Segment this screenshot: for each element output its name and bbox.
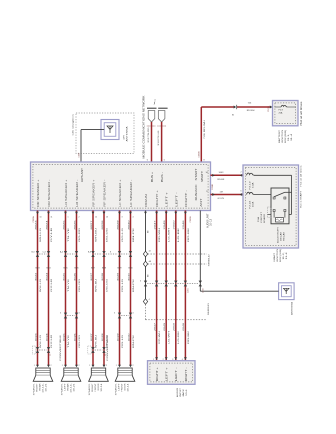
- svg-text:RR SPEAKER -: RR SPEAKER -: [48, 179, 51, 207]
- module communications network label: [143, 95, 146, 158]
- svg-text:WH-BU: WH-BU: [95, 278, 97, 292]
- wire 2050 LG-BK audio input jack LEFT -: [174, 211, 181, 361]
- svg-text:11-4: 11-4: [286, 251, 288, 259]
- svg-text:GY-YE: GY-YE: [218, 198, 225, 200]
- svg-text:2048: 2048: [183, 322, 185, 331]
- svg-text:RIGHT +: RIGHT +: [156, 366, 159, 381]
- svg-text:1: 1: [89, 365, 90, 367]
- SJB caption: [273, 249, 288, 262]
- svg-text:12: 12: [95, 216, 97, 218]
- svg-text:RF SPEAKER -: RF SPEAKER -: [104, 179, 107, 207]
- svg-text:VBATT: VBATT: [201, 170, 204, 182]
- svg-text:SHIELD: SHIELD: [209, 253, 211, 266]
- svg-text:20A: 20A: [279, 111, 283, 114]
- svg-text:2050: 2050: [174, 322, 176, 331]
- svg-text:LF SPEAKER -: LF SPEAKER -: [130, 179, 133, 207]
- svg-text:11-4: 11-4: [291, 133, 293, 141]
- fuse F2.9 20A (BJB): [279, 105, 288, 114]
- svg-text:8029: 8029: [117, 268, 121, 270]
- svg-text:C290B: C290B: [212, 183, 214, 190]
- svg-text:8030: 8030: [128, 272, 130, 281]
- svg-text:BUS -: BUS -: [161, 172, 164, 182]
- svg-text:8023: 8023: [35, 272, 37, 281]
- svg-text:8026: 8026: [74, 268, 78, 270]
- svg-text:xxxxxxx: xxxxxxx: [157, 126, 166, 128]
- svg-text:RF SPEAKER +: RF SPEAKER +: [93, 179, 96, 207]
- audio unit connector designator C290B: [190, 216, 192, 223]
- svg-text:8: 8: [110, 251, 111, 253]
- svg-text:BN-PK: BN-PK: [133, 278, 135, 292]
- svg-text:OG-LG: OG-LG: [122, 334, 124, 348]
- svg-text:REAR: REAR: [66, 383, 69, 391]
- svg-text:4A: 4A: [149, 260, 152, 263]
- svg-text:1003: 1003: [219, 172, 225, 174]
- svg-text:8027: 8027: [91, 272, 93, 281]
- svg-text:2: 2: [133, 365, 134, 367]
- svg-text:1: 1: [153, 359, 154, 361]
- svg-text:DG-OG: DG-OG: [106, 227, 108, 242]
- svg-text:RD-WH: RD-WH: [159, 330, 161, 344]
- svg-text:8028: 8028: [102, 268, 106, 270]
- svg-text:LEFT +: LEFT +: [166, 366, 169, 381]
- svg-text:2: 2: [163, 359, 164, 361]
- svg-text:RIGHT: RIGHT: [92, 383, 94, 392]
- svg-text:8025: 8025: [63, 268, 67, 270]
- BJB internal wire: [275, 106, 297, 108]
- svg-text:FRONT: FRONT: [121, 383, 123, 392]
- svg-text:8023: 8023: [35, 268, 39, 270]
- svg-text:BOX (BJB): BOX (BJB): [285, 130, 287, 143]
- svg-text:ANTENNA: ANTENNA: [126, 126, 129, 142]
- svg-text:Hot in START: Hot in START: [300, 190, 303, 208]
- svg-text:LR SPEAKER +: LR SPEAKER +: [65, 179, 68, 207]
- svg-text:LF SPEAKER +: LF SPEAKER +: [119, 179, 122, 207]
- svg-text:DOOR: DOOR: [124, 383, 126, 391]
- svg-text:5: 5: [164, 160, 166, 162]
- svg-text:34: 34: [206, 172, 208, 174]
- svg-text:2050: 2050: [174, 219, 176, 230]
- svg-text:4: 4: [154, 100, 156, 102]
- svg-text:2: 2: [79, 216, 80, 218]
- wire MCN bus - (to audio unit pin 5): [157, 122, 166, 165]
- svg-text:137: 137: [220, 191, 224, 193]
- svg-text:4: 4: [182, 359, 183, 361]
- svg-text:TN-YE: TN-YE: [68, 227, 70, 242]
- svg-text:OG-LG: OG-LG: [122, 278, 124, 292]
- svg-text:LG-WH: LG-WH: [169, 227, 171, 242]
- svg-text:6: 6: [140, 281, 141, 283]
- svg-text:REAR: REAR: [38, 383, 41, 391]
- svg-text:ACCESSORY: ACCESSORY: [276, 226, 279, 243]
- svg-text:C3: C3: [50, 354, 52, 356]
- MCN connector cup 2: [158, 111, 165, 122]
- svg-text:LR SPEAKER -: LR SPEAKER -: [76, 179, 79, 207]
- wire GPS antenna coax to audio unit: [78, 130, 104, 165]
- inline connector row C210 on jack wires: [140, 281, 202, 294]
- svg-text:LEFT: LEFT: [64, 383, 66, 391]
- svg-text:GPS ANT: GPS ANT: [81, 167, 84, 182]
- svg-text:10-14: 10-14: [127, 382, 129, 391]
- svg-text:SPEAKER,: SPEAKER,: [32, 383, 35, 395]
- svg-text:8027: 8027: [91, 219, 93, 230]
- svg-text:RIGHT +: RIGHT +: [157, 189, 159, 207]
- svg-text:BK: BK: [147, 230, 149, 233]
- svg-text:JUNCTION: JUNCTION: [277, 249, 279, 262]
- svg-text:4: 4: [79, 313, 80, 315]
- svg-text:BOX (SJB): BOX (SJB): [280, 249, 282, 262]
- svg-text:8024: 8024: [46, 272, 48, 281]
- svg-text:BOARD: BOARD: [263, 213, 266, 223]
- wire 8025 TN-YE speaker circuit: [63, 211, 70, 366]
- svg-text:14: 14: [232, 114, 234, 116]
- svg-text:BK: BK: [147, 274, 149, 277]
- svg-text:BN-PK: BN-PK: [133, 227, 135, 242]
- svg-text:8029: 8029: [117, 272, 119, 281]
- svg-text:LEFT -: LEFT -: [175, 367, 178, 381]
- connector row (pairs 1 and 3, convertible): [32, 346, 107, 356]
- svg-text:MODULE COMMUNICATIONS NETWORK: MODULE COMMUNICATIONS NETWORK: [143, 95, 146, 158]
- svg-text:xxxxxxx: xxxxxxx: [147, 126, 156, 128]
- svg-text:1: 1: [116, 365, 117, 367]
- svg-text:2047: 2047: [154, 322, 156, 331]
- audio unit interior right pin labels: [195, 168, 198, 201]
- svg-text:726 RD-WH: 726 RD-WH: [204, 119, 206, 139]
- svg-text:TN-YE: TN-YE: [68, 334, 70, 348]
- svg-text:11-1,: 11-1,: [288, 133, 290, 141]
- svg-text:RIGHT: RIGHT: [36, 383, 38, 392]
- svg-text:8026: 8026: [74, 219, 76, 230]
- svg-text:RD-BK: RD-BK: [188, 227, 190, 242]
- svg-text:8025: 8025: [63, 219, 65, 230]
- svg-text:RD-WH: RD-WH: [247, 110, 255, 112]
- wire 2048 RD-BK audio input jack RIGHT -: [183, 211, 190, 361]
- svg-text:SMART: SMART: [273, 252, 276, 262]
- svg-text:LEFT -: LEFT -: [176, 192, 178, 207]
- svg-text:WH-BU: WH-BU: [95, 227, 97, 242]
- svg-text:726: 726: [248, 103, 252, 105]
- svg-text:OG-RD: OG-RD: [79, 334, 81, 348]
- svg-text:DRAIN: DRAIN: [145, 194, 148, 207]
- svg-text:GY-LB: GY-LB: [51, 278, 53, 292]
- wire 8028 DG-OG speaker circuit: [102, 211, 109, 366]
- MCN bracket: [147, 100, 168, 109]
- svg-text:RR SPEAKER +: RR SPEAKER +: [37, 179, 40, 207]
- svg-text:C216: C216: [188, 288, 190, 293]
- SJB circuit board dashed sub-box: [257, 207, 271, 223]
- svg-text:10-14: 10-14: [101, 382, 103, 391]
- wire 726 RD-WH vertical to audio unit pin 8: [199, 107, 206, 165]
- svg-text:11-2,: 11-2,: [283, 252, 285, 260]
- svg-text:WH-LG: WH-LG: [40, 334, 42, 348]
- svg-text:8024: 8024: [46, 219, 48, 230]
- svg-text:8028: 8028: [102, 219, 104, 230]
- wire 137 GY-YE (run/acc) audio unit to SJB: [206, 191, 243, 200]
- svg-text:RIGHT -: RIGHT -: [185, 367, 188, 381]
- svg-text:OG-LG: OG-LG: [122, 227, 124, 242]
- svg-text:3: 3: [60, 313, 61, 315]
- connector row (pairs 2 and 4, hardtop): [60, 313, 134, 319]
- shield link upper: [148, 253, 211, 266]
- svg-text:11: 11: [51, 216, 53, 218]
- svg-text:B-8: B-8: [88, 251, 91, 253]
- svg-text:3: 3: [114, 313, 115, 315]
- svg-text:LG-WH: LG-WH: [169, 330, 171, 344]
- svg-text:8030: 8030: [128, 219, 130, 230]
- svg-text:OG-RD: OG-RD: [79, 278, 81, 292]
- svg-text:JACK: JACK: [182, 388, 185, 397]
- svg-text:10-6: 10-6: [186, 388, 188, 396]
- audio unit connector designator C290A: [32, 216, 35, 223]
- svg-text:BUS +: BUS +: [151, 171, 154, 182]
- MCN connector cup 1: [148, 111, 155, 122]
- svg-text:SPEAKER,: SPEAKER,: [114, 383, 117, 395]
- svg-text:6: 6: [147, 160, 149, 162]
- svg-text:10-21: 10-21: [73, 382, 75, 391]
- svg-text:C1035: C1035: [268, 105, 270, 112]
- svg-text:10-13: 10-13: [211, 218, 213, 226]
- svg-text:RUN/ACC: RUN/ACC: [195, 184, 198, 200]
- shield link lower: [146, 302, 210, 320]
- speaker harness connector row C290 (all pairs): [32, 250, 133, 257]
- svg-text:8023: 8023: [35, 219, 37, 230]
- svg-text:F2.9: F2.9: [279, 110, 284, 112]
- svg-text:913 TN-OG: 913 TN-OG: [148, 127, 150, 143]
- svg-text:AUDIO: AUDIO: [176, 388, 179, 397]
- svg-text:2048: 2048: [183, 219, 185, 230]
- svg-text:WH-LG: WH-LG: [40, 227, 42, 242]
- speaker LEFT FRONT: [114, 365, 134, 395]
- wire BK drain from audio unit: [144, 211, 149, 302]
- svg-text:2047: 2047: [154, 219, 156, 230]
- svg-text:LEFT: LEFT: [118, 383, 120, 391]
- svg-text:13: 13: [106, 216, 108, 218]
- inline connector on 726 wire: [234, 105, 237, 109]
- svg-text:6: 6: [241, 191, 242, 193]
- speaker RIGHT FRONT: [88, 365, 108, 395]
- svg-text:2049: 2049: [164, 322, 166, 331]
- audio unit U1: [31, 162, 213, 228]
- wire 2047 RD-WH audio input jack RIGHT +: [154, 211, 161, 361]
- svg-text:44: 44: [149, 251, 151, 253]
- svg-text:10-14,: 10-14,: [42, 383, 44, 393]
- svg-text:2: 2: [51, 365, 52, 367]
- svg-text:914 PK-LB: 914 PK-LB: [158, 130, 160, 146]
- splice S2 on drain wire: [143, 260, 151, 267]
- svg-text:C-3: C-3: [43, 251, 46, 253]
- svg-text:TN-YE: TN-YE: [68, 278, 70, 292]
- svg-text:SPEAKER,: SPEAKER,: [60, 383, 63, 395]
- svg-text:CONVERTIBLE: CONVERTIBLE: [107, 334, 109, 361]
- wire antenna coax from audio unit: [200, 211, 278, 294]
- svg-text:WH-LG: WH-LG: [40, 278, 42, 292]
- svg-text:8028: 8028: [102, 272, 104, 281]
- accessory delay relay caption: [276, 226, 285, 243]
- svg-text:Hot at all times: Hot at all times: [300, 164, 303, 186]
- svg-text:4: 4: [149, 299, 150, 301]
- svg-text:F2.22: F2.22: [249, 199, 251, 208]
- svg-text:CONVERTIBLE: CONVERTIBLE: [60, 334, 62, 361]
- fuse F2.22 10A (SJB): [247, 192, 272, 208]
- svg-text:F2.19: F2.19: [249, 180, 251, 189]
- svg-text:OG-RD: OG-RD: [79, 227, 81, 242]
- svg-text:BATTERY: BATTERY: [278, 129, 281, 143]
- audio input jack caption: [176, 387, 188, 397]
- svg-text:SHIELD: SHIELD: [208, 302, 210, 315]
- svg-text:8029: 8029: [117, 219, 119, 230]
- convertible option label 1: [60, 334, 62, 361]
- smart junction box SJB: [243, 164, 303, 248]
- svg-text:Hot at all times: Hot at all times: [300, 100, 303, 125]
- svg-text:DELAY: DELAY: [279, 231, 282, 241]
- convertible option label 2: [107, 334, 109, 361]
- splice S3 on drain wire: [143, 299, 149, 305]
- svg-text:3: 3: [172, 359, 173, 361]
- svg-text:INPUT: INPUT: [180, 387, 182, 397]
- GPS antenna dashed enclosure (with navigation): [71, 113, 134, 154]
- wire 8023 WH-LG speaker circuit: [35, 211, 42, 366]
- svg-text:ANTENNA: ANTENNA: [290, 301, 293, 315]
- svg-text:AUDIO UNIT: AUDIO UNIT: [206, 213, 209, 228]
- speaker LEFT REAR: [60, 365, 80, 395]
- svg-text:RIGHT -: RIGHT -: [186, 190, 188, 207]
- wire 1003 RD-BK (start feed) audio unit to SJB: [206, 172, 248, 191]
- svg-text:1: 1: [62, 365, 63, 367]
- svg-text:4: 4: [133, 216, 134, 218]
- antenna symbol: [279, 283, 295, 315]
- svg-text:10-21: 10-21: [45, 382, 47, 391]
- svg-text:8026: 8026: [74, 272, 76, 281]
- svg-text:2: 2: [79, 365, 80, 367]
- svg-text:10: 10: [40, 216, 42, 218]
- svg-text:DG-OG: DG-OG: [106, 278, 108, 292]
- audio unit interior top pin labels: [81, 167, 204, 182]
- svg-text:B-3: B-3: [32, 251, 35, 253]
- audio input jack: [148, 359, 196, 384]
- svg-text:17: 17: [206, 191, 208, 193]
- svg-text:JUNCTION: JUNCTION: [282, 130, 284, 143]
- svg-text:4: 4: [133, 313, 134, 315]
- svg-text:LG-BK: LG-BK: [178, 227, 180, 242]
- wire 2049 LG-WH audio input jack LEFT +: [164, 211, 171, 361]
- svg-text:3: 3: [122, 216, 123, 218]
- svg-text:A-4: A-4: [60, 250, 63, 253]
- svg-text:GY-LB: GY-LB: [51, 334, 53, 348]
- svg-text:1: 1: [34, 365, 35, 367]
- svg-text:C290B: C290B: [199, 151, 201, 158]
- svg-text:8027: 8027: [91, 268, 95, 270]
- wire MCN bus + (to audio unit pin 6): [147, 122, 156, 165]
- svg-text:START: START: [195, 168, 198, 181]
- svg-text:BN-PK: BN-PK: [133, 334, 135, 348]
- wire 8027 WH-BU speaker circuit: [91, 211, 98, 366]
- wire 8026 OG-RD speaker circuit: [74, 211, 81, 366]
- svg-text:2: 2: [241, 172, 242, 174]
- accessory delay relay: [271, 188, 289, 224]
- BJB caption: [278, 129, 293, 143]
- svg-text:WH-BU: WH-BU: [95, 334, 97, 348]
- svg-text:8030: 8030: [128, 268, 132, 270]
- fuse F2.19 10A (SJB): [247, 173, 292, 189]
- splice S1 on drain wire: [143, 251, 150, 257]
- svg-text:FRONT: FRONT: [95, 383, 97, 392]
- svg-text:DOOR: DOOR: [98, 383, 100, 391]
- svg-text:LEFT +: LEFT +: [167, 191, 169, 207]
- svg-text:RD-WH: RD-WH: [159, 227, 161, 242]
- svg-text:1: 1: [68, 216, 69, 218]
- svg-text:2049: 2049: [164, 219, 166, 230]
- SJB internal wiring to relay: [289, 175, 292, 214]
- svg-text:8024: 8024: [46, 268, 50, 270]
- wire 726 RD-WH horizontal from BJB: [201, 103, 272, 116]
- wire 8030 BN-PK speaker circuit: [128, 211, 135, 366]
- wire 8024 GY-LB speaker circuit: [46, 211, 53, 366]
- svg-text:C210: C210: [202, 287, 204, 293]
- svg-text:8025: 8025: [63, 272, 65, 281]
- svg-text:2: 2: [106, 365, 107, 367]
- audio unit bottom pin labels: [37, 179, 203, 207]
- svg-text:8: 8: [204, 160, 206, 162]
- svg-text:RD-BK: RD-BK: [188, 330, 190, 344]
- svg-text:ANT: ANT: [200, 198, 203, 207]
- svg-text:SPEAKER,: SPEAKER,: [88, 383, 91, 395]
- svg-text:CIRCUIT: CIRCUIT: [261, 211, 263, 223]
- battery junction box BJB: [273, 100, 303, 126]
- GPS antenna symbol: [101, 120, 129, 142]
- svg-text:RELAY: RELAY: [282, 231, 285, 241]
- svg-text:LG-BK: LG-BK: [178, 330, 180, 344]
- svg-text:10-14,: 10-14,: [70, 383, 72, 393]
- svg-text:C290B: C290B: [190, 216, 192, 223]
- svg-text:RD-BK: RD-BK: [218, 179, 225, 181]
- svg-text:with navigation: with navigation: [71, 113, 74, 135]
- svg-text:GY-LB: GY-LB: [51, 227, 53, 242]
- wire 8029 OG-LG speaker circuit: [117, 211, 124, 366]
- speaker RIGHT REAR: [32, 365, 52, 395]
- svg-text:GPS: GPS: [124, 134, 126, 139]
